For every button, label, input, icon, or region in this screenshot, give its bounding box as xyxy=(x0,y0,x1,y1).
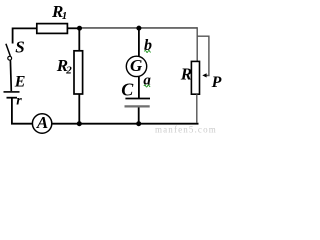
capacitor C bottom plate xyxy=(125,105,150,107)
wire: top-left segment from corner to R1 xyxy=(13,28,37,43)
svg-text:R: R xyxy=(180,64,192,83)
node: junction dot G/top xyxy=(136,26,141,31)
wiper arrowhead P xyxy=(202,73,206,77)
wire: rheostat R to bottom-right corner xyxy=(196,94,198,123)
wire: switch to battery xyxy=(9,60,12,91)
rheostat R box xyxy=(191,61,199,94)
svg-text:r: r xyxy=(16,94,22,109)
svg-text:A: A xyxy=(36,113,48,132)
node: junction dot R2/bottom xyxy=(77,121,82,126)
svg-text:E: E xyxy=(14,74,26,91)
galvanometer G circle xyxy=(126,56,146,76)
switch S contact circle xyxy=(8,56,12,60)
wire: bottom main wire xyxy=(52,123,199,125)
svg-text:G: G xyxy=(130,56,143,75)
svg-text:manfen5.com: manfen5.com xyxy=(155,125,217,134)
resistor R1 box xyxy=(37,24,68,34)
wire: battery to bottom-left corner then to ammeter xyxy=(12,98,33,123)
wire: R2 to bottom node xyxy=(78,94,80,124)
squiggle under a xyxy=(144,85,150,87)
wire: node to R2 xyxy=(78,28,80,51)
wire: G to capacitor top plate xyxy=(138,77,140,99)
node: junction dot R2/top xyxy=(77,26,82,31)
svg-text:2: 2 xyxy=(65,65,72,77)
squiggle under b xyxy=(144,50,150,52)
battery E long plate xyxy=(4,91,20,93)
switch S blade xyxy=(6,44,10,56)
svg-text:P: P xyxy=(211,74,222,91)
wire: capacitor to bottom node xyxy=(138,108,140,124)
node: junction dot C/bottom xyxy=(136,121,141,126)
resistor R2 box xyxy=(74,51,83,94)
wire: node to galvanometer G xyxy=(138,28,140,56)
svg-text:1: 1 xyxy=(62,10,68,22)
svg-text:C: C xyxy=(121,80,134,100)
wire: right branch top corner down to rheostat R xyxy=(196,27,198,61)
wire: R1 to node xyxy=(67,27,81,29)
wire: wiper bracket xyxy=(197,36,209,75)
svg-text:S: S xyxy=(15,38,24,57)
battery E short plate xyxy=(7,97,18,99)
capacitor C top plate xyxy=(125,98,150,100)
wire: top gray segment from R2 node to top-right corner xyxy=(80,27,197,29)
ammeter A circle xyxy=(32,114,51,133)
